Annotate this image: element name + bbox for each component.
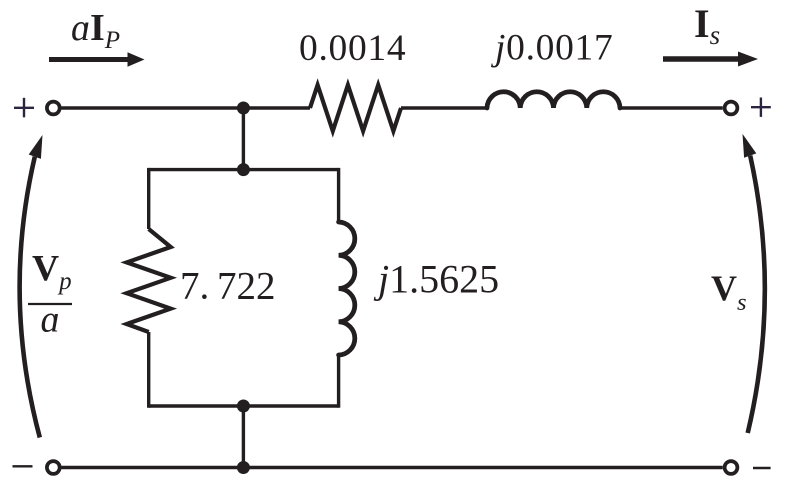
wire bottom rail — [61, 466, 722, 469]
wire shunt box top — [149, 168, 339, 171]
svg-text:j0.0017: j0.0017 — [490, 28, 613, 69]
svg-text:7. 722: 7. 722 — [180, 265, 276, 308]
svg-text:j1.5625: j1.5625 — [373, 257, 499, 302]
polarity plus secondary top — [751, 98, 771, 117]
polarity plus primary top — [14, 98, 34, 118]
terminal primary top — [47, 102, 60, 115]
wire shunt box right lower — [337, 355, 340, 408]
wire shunt box left upper — [147, 168, 150, 229]
wire shunt box bottom — [149, 404, 339, 407]
current arrow aIP — [49, 52, 145, 66]
wire shunt box right upper — [337, 168, 340, 222]
terminal secondary top — [725, 102, 738, 115]
wire top rail right segment — [620, 106, 723, 109]
svg-text:ɑ: ɑ — [41, 299, 60, 341]
node junction dot shunt box bottom — [237, 400, 250, 413]
resistor 7.722 (shunt) — [127, 229, 171, 332]
svg-text:0.0014: 0.0014 — [299, 28, 406, 69]
wire vertical link shunt box to bottom rail — [242, 406, 245, 468]
node junction dot top rail — [237, 102, 250, 115]
wire vertical link top rail to shunt box — [242, 106, 245, 170]
terminal secondary bottom — [725, 461, 738, 474]
label Vp/a fraction — [28, 249, 72, 341]
wire top rail left segment — [61, 106, 310, 109]
node junction dot shunt box top — [237, 163, 250, 176]
voltage arrow Vp/a (left arc) — [20, 135, 43, 438]
inductor j0.0017 (series) — [487, 92, 620, 108]
terminal primary bottom — [47, 461, 60, 474]
polarity minus secondary bottom — [753, 467, 771, 469]
resistor 0.0014 (series) — [310, 85, 401, 131]
inductor j1.5625 (shunt) — [339, 222, 355, 355]
wire shunt box left lower — [147, 332, 150, 408]
voltage arrow Vs (right arc) — [743, 134, 765, 433]
current arrow Is — [663, 52, 758, 67]
wire top rail between resistor and inductor — [401, 106, 487, 109]
node junction dot bottom rail — [237, 461, 250, 474]
polarity minus primary bottom — [13, 465, 33, 467]
